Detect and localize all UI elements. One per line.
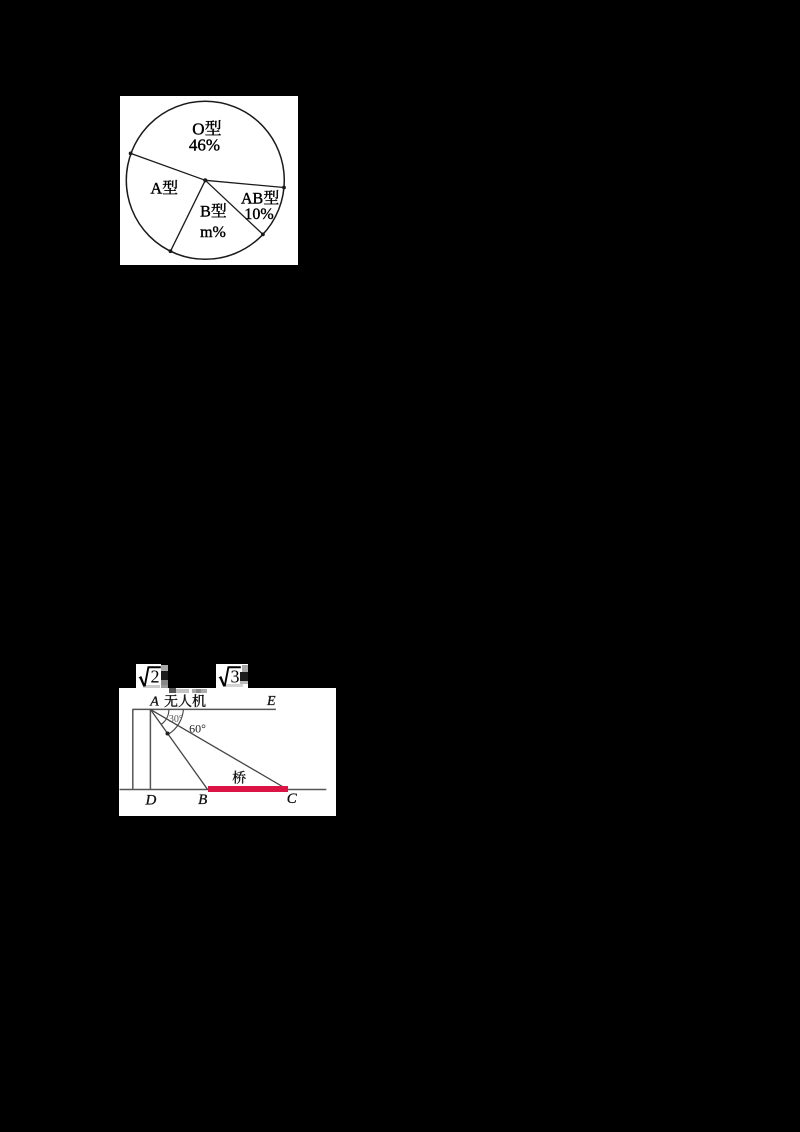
- svg-text:C: C: [287, 791, 298, 807]
- dot bottom-left: [169, 249, 173, 253]
- dot bottom-right: [261, 233, 265, 237]
- line AE: [132, 708, 276, 710]
- pie figure white panel: [120, 96, 299, 266]
- dot on AB: [166, 732, 170, 736]
- gray smudge: [169, 688, 177, 694]
- svg-text:B: B: [200, 203, 211, 220]
- small arc: [161, 709, 169, 724]
- label 桥: [233, 771, 246, 784]
- center dot: [203, 178, 207, 182]
- svg-text:2: 2: [151, 667, 160, 687]
- radical sign sqrt2: [139, 666, 161, 686]
- dot right: [282, 186, 286, 190]
- sqrt2 patch panel: [136, 664, 161, 688]
- geometry figure white panel: [119, 688, 336, 816]
- dot left: [129, 152, 133, 156]
- geometry ink layer: [110, 655, 345, 820]
- radius B/A boundary: [171, 180, 206, 251]
- svg-text:E: E: [266, 694, 276, 709]
- svg-text:3: 3: [231, 667, 240, 687]
- radius O/A boundary: [131, 154, 205, 181]
- label 无人机: [165, 694, 206, 707]
- line AB: [150, 709, 207, 789]
- radius AB/B boundary: [205, 180, 263, 234]
- pie chart ink layer: [119, 95, 299, 266]
- circle: [126, 101, 284, 259]
- line AC: [150, 709, 287, 789]
- svg-text:30°: 30°: [169, 714, 183, 725]
- ground line: [120, 789, 327, 791]
- svg-text:AB: AB: [241, 190, 263, 207]
- svg-text:60°: 60°: [189, 722, 206, 736]
- sqrt3 patch panel: [216, 664, 248, 688]
- big arc: [169, 709, 184, 734]
- svg-text:D: D: [144, 793, 156, 809]
- svg-text:m%: m%: [200, 224, 226, 241]
- radius O/AB boundary: [205, 180, 284, 187]
- svg-text:B: B: [198, 792, 207, 808]
- svg-text:A: A: [149, 695, 159, 710]
- svg-text:46%: 46%: [189, 136, 220, 155]
- svg-text:A: A: [151, 180, 163, 197]
- red bridge bar: [208, 786, 289, 792]
- svg-text:10%: 10%: [244, 206, 273, 223]
- left vertical: [132, 709, 134, 789]
- line AD: [149, 709, 151, 789]
- radical sign sqrt3: [219, 666, 241, 686]
